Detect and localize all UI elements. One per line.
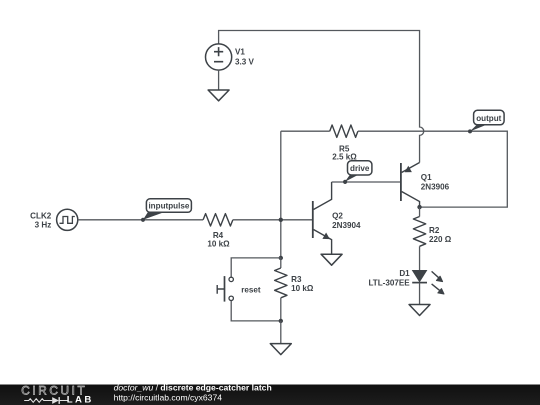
svg-text:output: output (476, 114, 501, 123)
wire vertical branch R5-left down through input node to reset node (280, 131, 282, 258)
svg-text:LTL-307EE: LTL-307EE (368, 279, 410, 288)
wire R3 top lead (280, 258, 282, 268)
svg-text:doctor_wu / discrete edge-catc: doctor_wu / discrete edge-catcher latch (114, 383, 272, 393)
node junction input/R5 (279, 218, 283, 222)
svg-text:10 kΩ: 10 kΩ (207, 239, 230, 248)
wire Q1 collector node to R2 (419, 207, 421, 216)
svg-text:drive: drive (350, 164, 370, 173)
svg-text:reset: reset (241, 285, 261, 294)
svg-text:Q2: Q2 (332, 212, 343, 221)
footer bar (0, 385, 540, 405)
wire D1 to ground (419, 283, 421, 305)
svg-text:CLK2: CLK2 (30, 211, 52, 220)
wire reset bottom (231, 301, 281, 321)
resistor R5 (330, 125, 358, 137)
wire R4 to Q2 base (233, 219, 313, 221)
svg-text:220 Ω: 220 Ω (429, 235, 452, 244)
svg-text:2N3904: 2N3904 (332, 221, 361, 230)
svg-text:http://circuitlab.com/cyx6374: http://circuitlab.com/cyx6374 (114, 392, 223, 402)
node junction reset/R3 top (279, 256, 283, 260)
wire R3 bottom lead (280, 298, 282, 321)
resistor R4 (203, 214, 233, 226)
resistor R2 (413, 217, 425, 247)
wire V1 bottom to ground (218, 70, 220, 90)
clock source CLK2 (57, 209, 78, 230)
ground under D1 (409, 305, 430, 316)
wire R5 right to output rail, down right side, to Q1 collector node (358, 131, 507, 207)
svg-text:Q1: Q1 (421, 173, 432, 182)
node junction reset/R3 bottom (279, 319, 283, 323)
ground under Q2 (321, 254, 342, 265)
svg-text:R3: R3 (291, 275, 302, 284)
ground under R3 (270, 344, 291, 355)
pushbutton switch reset (217, 276, 233, 302)
wire CLK2 to R4 (78, 219, 203, 221)
transistor Q2 2N3904 (313, 182, 332, 254)
node flag drive (343, 161, 372, 184)
wire R5 left lead (281, 130, 330, 132)
wire R2 to D1 (419, 246, 421, 270)
svg-text:R2: R2 (429, 226, 440, 235)
node flag inputpulse (141, 199, 192, 222)
svg-text:10 kΩ: 10 kΩ (291, 284, 314, 293)
wire reset top (231, 258, 281, 277)
node junction output/Q1 collector (417, 205, 421, 209)
svg-text:3.3 V: 3.3 V (235, 58, 255, 67)
ground under V1 (208, 90, 229, 101)
wire top rail V1 to Q1 emitter (with hop over output wire) (219, 31, 424, 163)
svg-text:2N3906: 2N3906 (421, 182, 450, 191)
wire drive net Q2 collector to Q1 base (332, 181, 401, 183)
CircuitLab logo resistor-diode symbol (24, 399, 67, 403)
transistor Q1 2N3906 (401, 163, 420, 208)
svg-text:V1: V1 (235, 48, 245, 57)
wire R3 node to ground (280, 321, 282, 344)
LED D1 (412, 271, 444, 295)
svg-text:D1: D1 (399, 269, 410, 278)
svg-text:inputpulse: inputpulse (148, 202, 189, 211)
node flag output (468, 110, 504, 133)
svg-text:LAB: LAB (67, 395, 94, 405)
voltage source V1 (206, 44, 232, 70)
svg-text:3 Hz: 3 Hz (35, 221, 52, 230)
resistor R3 (275, 268, 287, 298)
